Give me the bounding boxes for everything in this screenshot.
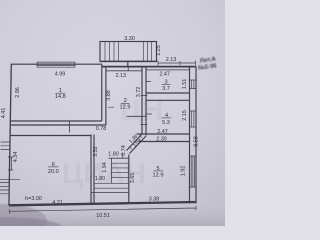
room1/room2 wall line B bbox=[105, 67, 107, 125]
room6 window left wall bbox=[8, 157, 13, 170]
tick bbox=[122, 153, 124, 159]
paper grain bbox=[0, 0, 225, 226]
chamfer door diagonals bbox=[127, 134, 143, 151]
right wall inner bbox=[189, 67, 191, 204]
bottom-left shadow blob bbox=[0, 204, 47, 238]
room1 right wall line A bbox=[101, 64, 103, 121]
room5 left wall bbox=[128, 155, 130, 204]
right wall outer bbox=[195, 67, 197, 204]
room1 bottom wall line B bbox=[10, 124, 106, 126]
corridor door jamb bbox=[69, 121, 71, 133]
room4 top wall bbox=[146, 99, 190, 101]
left outer wall bbox=[9, 64, 11, 206]
stamp smudge top right bbox=[198, 56, 218, 71]
porch outline bbox=[100, 42, 157, 62]
top wall right section bbox=[102, 66, 197, 68]
room3 bottom wall bbox=[146, 92, 190, 94]
porch hatch left bbox=[105, 42, 119, 62]
treads bbox=[112, 163, 129, 177]
paper background bbox=[0, 0, 225, 226]
porch door line bbox=[127, 62, 129, 67]
window room1 top bbox=[37, 62, 75, 67]
room3 inner top bbox=[146, 69, 190, 71]
stair hall left wall A bbox=[90, 135, 92, 204]
tick bbox=[108, 106, 114, 108]
room4 window right bbox=[190, 111, 197, 127]
stair bottom edge bbox=[91, 192, 129, 194]
room4 bottom wall bbox=[137, 133, 190, 135]
jamb ticks bbox=[141, 82, 152, 125]
room1 bottom wall line A bbox=[10, 120, 102, 122]
exterior steps lower left bbox=[0, 183, 9, 194]
room2 inner top line bbox=[107, 70, 143, 72]
stair middle stringer bbox=[111, 158, 113, 183]
exterior landing line bbox=[0, 178, 20, 180]
room5 window right bbox=[190, 156, 197, 187]
room5 top wall bbox=[139, 141, 190, 143]
porch tick bbox=[127, 67, 129, 71]
exterior steps upper left bbox=[1, 142, 11, 150]
stair top edge bbox=[109, 157, 129, 159]
dim line 10.51 bbox=[10, 206, 197, 214]
wide treads bbox=[94, 183, 129, 188]
porch hatch right bbox=[143, 42, 151, 62]
bottom outer wall bbox=[9, 202, 197, 205]
room6 top wall bbox=[10, 135, 91, 137]
stair hall left wall B bbox=[93, 135, 95, 204]
top wall room1 bbox=[11, 63, 102, 65]
chamfer ticks bbox=[129, 135, 142, 149]
room3 window right bbox=[190, 80, 197, 89]
dim line 2.13 top right bbox=[158, 61, 196, 66]
